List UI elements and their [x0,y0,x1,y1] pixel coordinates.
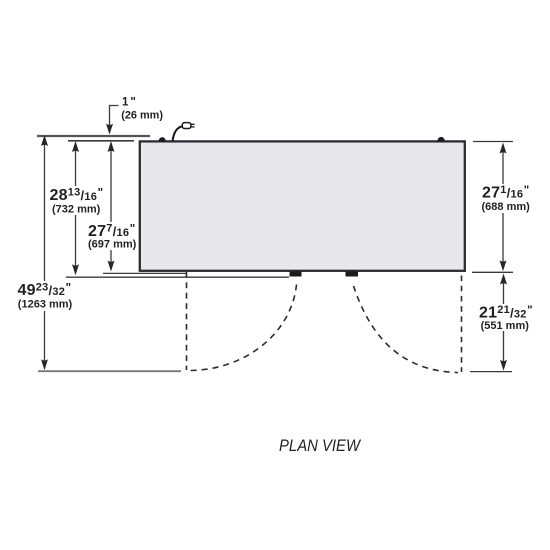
right door open (dashed) [461,276,463,373]
left door front line (27 7/16 ref) [103,272,186,274]
power cord [173,126,182,141]
dim 21 21/32 bottom tick [470,371,512,373]
1-inch dimension bracket [110,106,119,127]
dim 49 23/32 line [44,140,46,281]
svg-text:277/16": 277/16" [88,223,136,240]
left door handle block [290,271,302,276]
dim 28 13/16 line [75,146,77,186]
svg-text:(732 mm): (732 mm) [52,204,101,216]
right door swing arc [352,281,458,373]
dim 27 7/16 line [110,146,112,222]
svg-text:(1263 mm): (1263 mm) [18,299,73,311]
svg-text:(697 mm): (697 mm) [88,239,137,251]
svg-text:2121/32": 2121/32" [479,304,533,321]
top bumper [437,137,444,141]
svg-text:(688 mm): (688 mm) [482,201,531,213]
power cord grommet [159,137,166,141]
dim 27 1/16 line [502,147,504,184]
power plug [182,123,191,129]
cabinet body [140,141,465,270]
left door open (dashed) [186,272,188,370]
right door handle block [346,271,359,276]
door front line (28 13/16 ref) [66,276,289,278]
left door swing arc [189,285,297,371]
cabinet-top extension line [68,140,134,142]
svg-text:(551 mm): (551 mm) [481,320,530,332]
svg-text:(26 mm): (26 mm) [121,110,163,122]
svg-text:1": 1" [122,96,136,108]
wall reference line [37,135,150,137]
svg-text:271/16": 271/16" [482,184,530,201]
svg-text:4923/32": 4923/32" [18,282,72,299]
dim 27 1/16 / 21 21/32 middle tick [472,271,513,273]
dim 21 21/32 line [503,279,505,304]
svg-text:PLAN VIEW: PLAN VIEW [279,436,362,455]
dim 27 1/16 top tick [473,141,513,143]
svg-text:2813/16": 2813/16" [50,187,104,204]
floor reference line [38,370,181,372]
